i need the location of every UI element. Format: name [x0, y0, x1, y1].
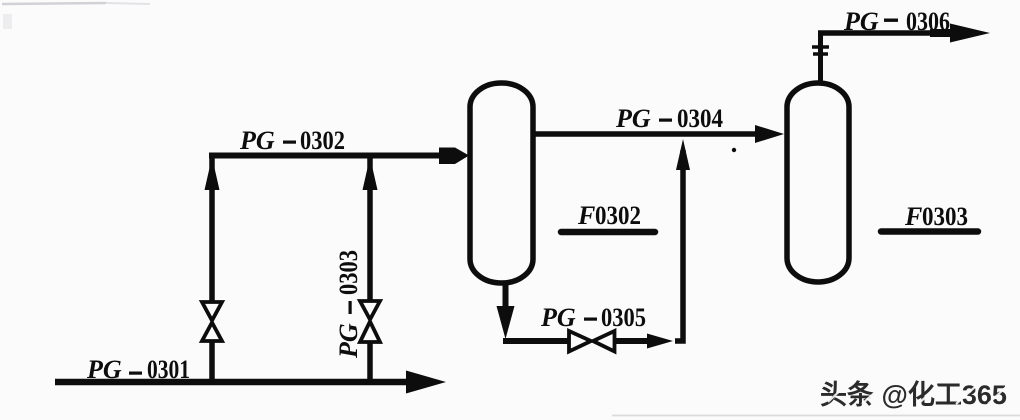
arrowhead: PG-0306 outlet right — [950, 24, 990, 43]
arrowhead: into vessel F0303 — [755, 125, 784, 143]
underline for F0303 — [881, 228, 978, 235]
wire: bottom transfer line (left part) — [503, 338, 570, 344]
svg-text:0302: 0302 — [300, 126, 345, 155]
label PG-0306 — [843, 7, 950, 36]
svg-text:PG: PG — [615, 104, 651, 133]
wire: riser from transfer line up to PG-0304 — [675, 150, 683, 341]
arrowhead: into vessel F0302 — [439, 148, 469, 165]
arrowhead: pointing down into corner — [497, 306, 515, 339]
svg-text:PG: PG — [239, 126, 275, 155]
wire: bottom main header line (PG-0301) — [55, 379, 410, 386]
svg-text:PG: PG — [334, 323, 363, 359]
wire: vessel F0302 bottom outlet — [503, 283, 509, 314]
valve V2 on riser 2 — [360, 301, 380, 342]
svg-text:0301: 0301 — [147, 355, 190, 384]
faint scan smudge top-left — [2, 3, 106, 4]
svg-text:0303: 0303 — [334, 250, 363, 295]
arrowhead: riser 2 pointing up — [363, 157, 378, 190]
watermark 头条@化工365 — [820, 380, 1007, 410]
svg-text:头条 @化工365: 头条 @化工365 — [820, 380, 1007, 410]
faint scan line bottom — [612, 415, 1020, 417]
wire: header PG-0302 horizontal — [209, 153, 441, 159]
svg-text:PG: PG — [540, 303, 576, 332]
label PG-0305 — [540, 303, 646, 332]
wire: vessel F0303 top outlet riser — [818, 31, 823, 82]
fitting ticks on top outlet — [812, 45, 829, 49]
svg-text:PG: PG — [86, 355, 122, 384]
wire: branch riser 1 (upper segment above valve) — [209, 153, 215, 302]
wire: line PG-0304 from vessel F0302 to vessel F0303 — [533, 131, 757, 137]
wire: bottom transfer line (right part) — [613, 338, 649, 344]
label PG-0304 — [615, 104, 723, 133]
wire: line PG-0306 horizontal — [818, 30, 935, 36]
svg-text:F: F — [904, 202, 922, 231]
valve V1 on riser 1 — [202, 302, 222, 341]
svg-text:0306: 0306 — [906, 7, 950, 36]
vessel F0303 (drum 2) — [787, 83, 849, 282]
svg-text:0302: 0302 — [595, 201, 641, 230]
label PG-0302 — [239, 126, 345, 155]
svg-text:0303: 0303 — [922, 202, 968, 231]
label PG-0301 — [86, 355, 190, 384]
label PG-0303 (rotated along riser 2) — [334, 250, 363, 359]
vessel F0302 (drum 1) — [470, 83, 533, 283]
label F0303 — [904, 202, 968, 231]
label F0302 — [577, 201, 641, 230]
svg-text:0304: 0304 — [677, 104, 723, 133]
wire: branch riser 2 (lower segment below valve) — [367, 342, 373, 384]
arrowhead: pointing up into PG-0304 line — [676, 139, 690, 170]
svg-text:F: F — [577, 201, 595, 230]
node: junction speck on PG-0304 line — [732, 148, 736, 152]
arrowhead: pointing right into riser — [647, 334, 673, 349]
arrowhead: riser 1 pointing up — [205, 157, 220, 190]
arrowhead: main header outlet right — [406, 371, 446, 394]
svg-text:0305: 0305 — [601, 303, 646, 332]
underline for F0302 — [561, 229, 655, 236]
wire: branch riser 1 (lower segment below valve) — [209, 341, 215, 384]
wire: branch riser 2 (upper segment above valve) — [367, 153, 373, 301]
valve PG-0305 — [569, 331, 615, 352]
svg-text:PG: PG — [843, 7, 879, 36]
